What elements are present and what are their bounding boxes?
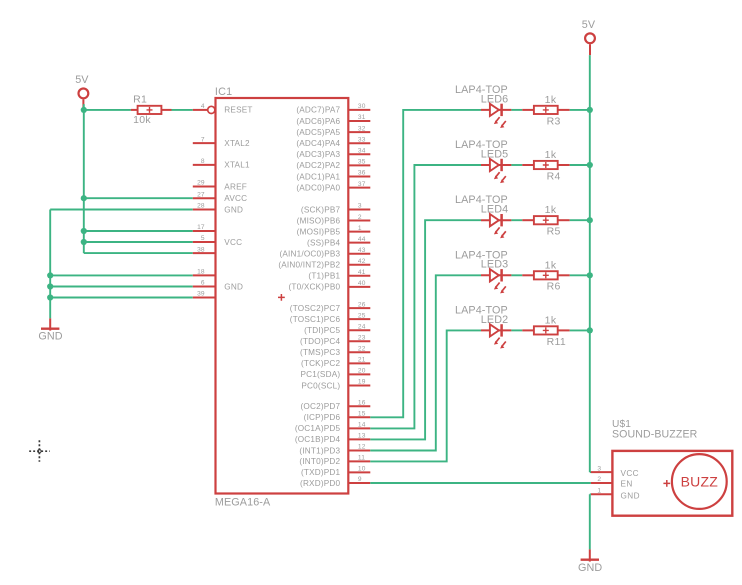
svg-text:(INT0)PD2: (INT0)PD2 [299,457,340,466]
svg-text:(AIN0/INT2)PB2: (AIN0/INT2)PB2 [278,261,340,270]
pin GND (6) [193,280,243,292]
svg-text:GND: GND [224,205,243,214]
svg-text:44: 44 [358,236,366,243]
svg-text:(SS)PB4: (SS)PB4 [307,238,340,247]
svg-text:AREF: AREF [224,182,247,191]
pin (ADC4)PA4 (33) [296,136,370,148]
resistor R11 lead right [558,329,570,331]
pin (ADC2)PA2 (35) [296,159,370,171]
svg-text:(ADC3)PA3: (ADC3)PA3 [296,150,340,159]
pin (ADC3)PA3 (34) [296,148,370,160]
pin 38 [193,246,216,253]
wire GND pin28 [50,209,193,211]
wire PD2 to LED2 [370,330,481,461]
pin RESET (4) [193,103,253,115]
svg-text:26: 26 [358,301,366,308]
svg-text:R6: R6 [547,281,561,293]
svg-text:41: 41 [358,269,366,276]
pin AVCC (27) [193,191,247,203]
node VCC junction [81,239,87,245]
svg-text:33: 33 [358,136,366,143]
wire LED to R5 [511,219,522,221]
svg-text:(ADC6)PA6: (ADC6)PA6 [296,117,340,126]
wire R5 to 5V rail [570,219,590,221]
svg-text:19: 19 [358,379,366,386]
svg-text:31: 31 [358,114,366,121]
pin PC1(SDA) (20) [300,368,370,380]
pin (ADC0)PA0 (37) [296,181,370,193]
resistor R4 lead left [522,164,534,166]
pin 17 [193,224,216,231]
svg-text:(INT1)PD3: (INT1)PD3 [299,446,340,455]
wire GND pin6 [50,286,193,288]
svg-text:(ADC1)PA1: (ADC1)PA1 [296,172,340,181]
pin (ICP)PD6 (15) [304,411,371,423]
resistor R5 lead left [522,219,534,221]
wire PD0 (RXD) to buzzer EN [370,482,591,484]
svg-text:6: 6 [201,280,205,287]
wire VCC pin5 [84,241,193,243]
wire AVCC [84,197,193,199]
svg-text:(ADC7)PA7: (ADC7)PA7 [296,106,340,115]
resistor R11 [534,314,566,347]
svg-text:37: 37 [358,181,366,188]
LED LED3 (LAP4-TOP) [455,249,511,293]
pin GND (28) [193,203,243,215]
pin PC0(SCL) (19) [301,379,370,391]
wire LED to R11 [511,329,522,331]
pin VCC (5) [193,235,242,247]
pin (TXD)PD1 (10) [301,466,370,478]
svg-text:10k: 10k [133,114,151,126]
svg-text:43: 43 [358,247,366,254]
LED LED4 (LAP4-TOP) [455,194,511,238]
svg-text:(ICP)PD6: (ICP)PD6 [304,413,341,422]
svg-text:R3: R3 [547,115,561,127]
wire 5V rail vertical [589,55,591,472]
pin (ADC5)PA5 (32) [296,125,370,137]
svg-text:12: 12 [358,444,366,451]
resistor R6 lead right [558,274,570,276]
svg-text:MEGA16-A: MEGA16-A [215,497,271,509]
svg-text:GND: GND [578,562,602,574]
svg-text:1k: 1k [545,204,557,216]
svg-text:2: 2 [597,476,601,483]
svg-text:(RXD)PD0: (RXD)PD0 [300,479,341,488]
pin XTAL2 (7) [193,136,250,148]
wire pin17 [84,230,193,232]
pin (OC2)PD7 (16) [300,400,370,412]
svg-text:40: 40 [358,280,366,287]
junction node at 5V/R1 [81,107,87,113]
wire R3 to 5V rail [570,109,590,111]
ground (left) [38,318,62,342]
svg-text:LED6: LED6 [481,93,508,105]
svg-text:17: 17 [197,224,205,231]
svg-text:23: 23 [358,334,366,341]
wire PD3 to LED3 [370,275,481,450]
svg-text:(TCK)PC2: (TCK)PC2 [301,359,341,368]
svg-text:VCC: VCC [224,238,242,247]
svg-text:(MISO)PB6: (MISO)PB6 [297,216,341,225]
svg-text:(T1)PB1: (T1)PB1 [308,272,340,281]
pin 18 [193,269,216,276]
svg-text:5: 5 [201,235,205,242]
svg-text:VCC: VCC [621,469,640,478]
svg-text:15: 15 [358,411,366,418]
LED LED6 (LAP4-TOP) [455,84,511,128]
LED LED5 (LAP4-TOP) [455,139,511,183]
svg-text:34: 34 [358,148,366,155]
pin EN (2) of buzzer [591,476,613,483]
svg-text:27: 27 [197,191,205,198]
LED LED2 (LAP4-TOP) [455,304,511,348]
pin (TDO)PC4 (23) [300,334,370,346]
ground (right, below buzzer) [578,549,602,574]
svg-text:R1: R1 [133,93,147,105]
svg-text:(ADC0)PA0: (ADC0)PA0 [296,183,340,192]
pin (ADC1)PA1 (36) [296,170,370,182]
node R6 rail junction [587,272,593,278]
wire buzzer GND down [590,494,591,549]
svg-text:20: 20 [358,368,366,375]
node R11 rail junction [587,327,593,333]
resistor R3 lead right [558,109,570,111]
svg-text:9: 9 [358,476,362,483]
svg-text:28: 28 [197,203,205,210]
pin (MISO)PB6 (2) [297,214,371,226]
resistor R4 [534,149,561,182]
svg-text:XTAL1: XTAL1 [224,161,250,170]
pin (TOSC2)PC7 (26) [290,301,371,313]
pin (AIN0/INT2)PB2 (42) [278,258,370,270]
origin crosshair marker [29,440,50,462]
svg-text:1k: 1k [545,94,557,106]
op-amp-style IC body: IC1 MEGA16-A [215,86,348,509]
svg-text:1: 1 [358,225,362,232]
pin (SS)PB4 (44) [307,236,370,248]
pin XTAL1 (8) [193,158,250,170]
resistor R3 [534,94,561,127]
node AVCC junction [81,195,87,201]
svg-text:11: 11 [358,455,365,462]
pin (TDI)PC5 (24) [304,323,370,335]
svg-text:13: 13 [358,433,366,440]
svg-text:R5: R5 [547,226,561,238]
node R4 rail junction [587,162,593,168]
svg-text:(TMS)PC3: (TMS)PC3 [300,348,341,357]
pin VCC (3) of buzzer [591,465,613,472]
resistor R5 lead right [558,219,570,221]
svg-text:(OC1A)PD5: (OC1A)PD5 [295,424,341,433]
svg-text:10: 10 [358,466,366,473]
pin (TCK)PC2 (21) [301,357,370,369]
wire 5V vertical rail to VCC/AVCC pins [83,110,85,253]
svg-text:AVCC: AVCC [224,194,247,203]
pin (RXD)PD0 (9) [300,476,370,488]
pin GND (1) of buzzer [591,488,613,495]
pin (OC1A)PD5 (14) [295,422,370,434]
svg-text:14: 14 [358,422,366,429]
buzzer U$1 SOUND-BUZZER [612,419,732,516]
svg-text:1k: 1k [545,149,557,161]
svg-text:R11: R11 [547,336,566,348]
svg-text:EN: EN [621,480,633,489]
svg-text:(TOSC2)PC7: (TOSC2)PC7 [290,304,341,313]
svg-text:24: 24 [358,323,366,330]
svg-text:32: 32 [358,125,366,132]
pin (TOSC1)PC6 (25) [290,312,371,324]
resistor R6 [534,259,561,292]
svg-text:(TOSC1)PC6: (TOSC1)PC6 [290,315,341,324]
resistor R5 [534,204,561,237]
svg-text:4: 4 [201,103,205,110]
svg-text:LED2: LED2 [481,314,508,326]
svg-text:PC1(SDA): PC1(SDA) [300,370,340,379]
svg-text:(OC2)PD7: (OC2)PD7 [300,402,340,411]
svg-text:29: 29 [197,180,205,187]
svg-text:8: 8 [201,158,205,165]
node pin18 junction [47,272,53,278]
svg-text:25: 25 [358,312,366,319]
wire PD6 to LED6 [370,110,481,417]
resistor R1 lead right [161,109,171,111]
svg-text:1k: 1k [545,314,557,326]
wire pin38 [84,252,193,254]
pin (MOSI)PB5 (1) [297,225,371,237]
svg-text:(OC1B)PD4: (OC1B)PD4 [295,435,341,444]
svg-text:30: 30 [358,103,366,110]
svg-text:21: 21 [358,357,366,364]
pin 39 [193,291,216,298]
svg-text:(T0/XCK)PB0: (T0/XCK)PB0 [289,283,341,292]
svg-text:(SCK)PB7: (SCK)PB7 [301,205,341,214]
svg-text:7: 7 [201,136,205,143]
resistor R1 [133,93,161,126]
node pin39 junction [47,294,53,300]
svg-text:BUZZ: BUZZ [681,474,719,490]
svg-text:(ADC4)PA4: (ADC4)PA4 [296,139,340,148]
wire LED to R6 [511,274,522,276]
svg-text:38: 38 [197,246,205,253]
wire R6 to 5V rail [570,274,590,276]
svg-text:(TDO)PC4: (TDO)PC4 [300,337,341,346]
svg-text:GND: GND [38,330,62,342]
svg-text:GND: GND [224,282,243,291]
svg-text:35: 35 [358,159,366,166]
pin (ADC7)PA7 (30) [296,103,370,115]
svg-text:RESET: RESET [224,106,252,115]
svg-text:(TXD)PD1: (TXD)PD1 [301,468,341,477]
pin (TMS)PC3 (22) [300,346,370,358]
svg-text:36: 36 [358,170,366,177]
resistor R4 lead right [558,164,570,166]
supply 5V (right) [582,19,596,55]
svg-text:XTAL2: XTAL2 [224,139,250,148]
wire 5V to R1 and node [83,104,85,110]
wire PD4 to LED4 [370,220,481,439]
svg-text:(TDI)PC5: (TDI)PC5 [304,326,340,335]
wire R1 to RESET pin [172,109,193,111]
svg-text:SOUND-BUZZER: SOUND-BUZZER [612,429,698,441]
svg-text:3: 3 [597,465,601,472]
wire R4 to 5V rail [570,164,590,166]
svg-text:39: 39 [197,291,205,298]
svg-text:IC1: IC1 [215,86,232,98]
pin (INT0)PD2 (11) [299,455,370,467]
resistor R11 lead left [522,329,534,331]
pin (INT1)PD3 (12) [299,444,370,456]
svg-text:(ADC2)PA2: (ADC2)PA2 [296,161,340,170]
wire GND vertical rail [49,210,51,319]
node R5 rail junction [587,217,593,223]
pin AREF (29) [193,180,247,192]
pin (OC1B)PD4 (13) [295,433,370,445]
svg-text:(AIN1/OC0)PB3: (AIN1/OC0)PB3 [279,250,340,259]
wire pin18 [50,274,193,276]
wire R11 to 5V rail [570,329,590,331]
node pin17 junction [81,228,87,234]
resistor R1 lead left [131,109,138,111]
svg-text:(MOSI)PB5: (MOSI)PB5 [297,227,341,236]
svg-text:LED3: LED3 [481,259,508,271]
pin (SCK)PB7 (3) [301,203,370,215]
svg-text:18: 18 [197,269,205,276]
wire pin39 [50,297,193,299]
pin (ADC6)PA6 (31) [296,114,370,126]
supply 5V (left) [75,74,89,110]
svg-text:42: 42 [358,258,366,265]
svg-text:LED5: LED5 [481,148,508,160]
resistor R6 lead left [522,274,534,276]
svg-text:(ADC5)PA5: (ADC5)PA5 [296,128,340,137]
pin (AIN1/OC0)PB3 (43) [279,247,370,259]
node pin6 junction [47,283,53,289]
node R3 rail junction [587,107,593,113]
wire PD5 to LED5 [370,165,481,428]
svg-text:R4: R4 [547,170,561,182]
svg-text:LED4: LED4 [481,204,508,216]
svg-text:1k: 1k [545,259,557,271]
svg-text:GND: GND [621,491,640,500]
pin (T1)PB1 (41) [308,269,370,281]
wire LED to R4 [511,164,522,166]
wire LED to R3 [511,109,522,111]
svg-text:5V: 5V [582,19,596,31]
svg-text:PC0(SCL): PC0(SCL) [301,381,340,390]
svg-text:16: 16 [358,400,366,407]
svg-text:1: 1 [597,488,601,495]
svg-text:3: 3 [358,203,362,210]
pin (T0/XCK)PB0 (40) [289,280,371,292]
svg-text:22: 22 [358,346,366,353]
svg-text:2: 2 [358,214,362,221]
svg-text:5V: 5V [75,74,89,86]
resistor R3 lead left [522,109,534,111]
